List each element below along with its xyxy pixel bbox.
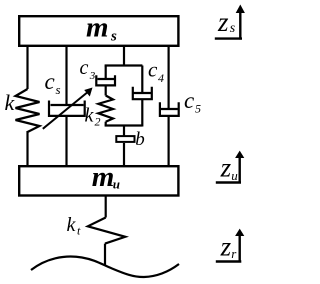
wire spring k_2 to group bottom bar [105, 122, 107, 126]
damper c_s piston [51, 104, 84, 106]
wire damper c_5 to m_u [168, 116, 170, 167]
svg-text:3: 3 [89, 70, 96, 82]
label k_2 [85, 105, 101, 129]
wire group top to damper c_4 [141, 66, 143, 94]
wire from damper c_s to m_u [65, 116, 67, 167]
svg-text:s: s [230, 21, 236, 36]
svg-text:k: k [5, 90, 16, 115]
tyre spring k_t [88, 218, 126, 244]
svg-text:s: s [56, 82, 61, 97]
label c_5 [184, 88, 201, 116]
svg-text:c: c [45, 69, 55, 94]
label c_3 [80, 57, 96, 82]
damper c_5 cylinder [160, 102, 179, 116]
label c_s [45, 69, 61, 97]
damper c_4 cylinder [133, 87, 152, 99]
svg-text:u: u [231, 168, 238, 183]
svg-text:4: 4 [158, 71, 164, 85]
svg-text:b: b [135, 129, 145, 150]
wire group top to damper c_3 [105, 66, 107, 80]
label c_4 [148, 58, 164, 86]
label k_t [67, 214, 82, 238]
svg-text:c: c [184, 88, 194, 113]
svg-text:s: s [110, 29, 117, 45]
svg-text:u: u [113, 176, 120, 191]
group bottom bar [105, 124, 143, 126]
svg-text:k: k [85, 105, 95, 127]
node z_r reference [216, 229, 245, 263]
wire from spring k to m_u [26, 131, 28, 167]
node z_u reference [216, 151, 245, 184]
damper c_s adjustment arrow [43, 88, 93, 129]
wire spring k_t to road [104, 244, 106, 266]
svg-text:c: c [148, 58, 158, 82]
damper c_5 piston [161, 108, 178, 110]
svg-text:m: m [92, 161, 115, 193]
wire group bottom to inerter b [123, 125, 125, 137]
wire from m_s to damper c_5 [168, 45, 170, 109]
unsprung mass m_u [19, 161, 178, 195]
svg-text:t: t [77, 224, 81, 238]
svg-text:z: z [220, 232, 232, 262]
wire from m_s to damper c_s [65, 45, 67, 105]
svg-text:m: m [86, 12, 109, 44]
sprung mass m_s [19, 12, 178, 46]
road surface [31, 257, 179, 277]
wire m_u to tyre spring k_t [105, 195, 107, 218]
damper c_4 piston [134, 92, 152, 94]
group top bar [105, 64, 143, 66]
inerter b [116, 136, 134, 142]
spring k [16, 89, 40, 132]
wire damper c_4 to group bottom bar [141, 99, 143, 126]
svg-text:5: 5 [195, 102, 201, 116]
svg-text:c: c [80, 57, 89, 79]
svg-text:z: z [217, 7, 229, 37]
wire damper c_3 to spring k_2 [105, 85, 107, 95]
svg-text:z: z [220, 153, 232, 183]
node z_s reference [215, 5, 245, 40]
svg-text:2: 2 [95, 115, 101, 129]
wire inerter b to m_u [123, 143, 125, 167]
spring k_2 [98, 96, 113, 122]
damper c_3 piston [98, 78, 115, 80]
damper c_s cylinder [49, 101, 85, 116]
svg-text:k: k [67, 214, 77, 236]
wire from m_s to group node [123, 45, 125, 67]
damper c_3 cylinder [96, 75, 115, 85]
wire from m_s to spring k [26, 45, 28, 89]
svg-text:r: r [231, 246, 237, 261]
